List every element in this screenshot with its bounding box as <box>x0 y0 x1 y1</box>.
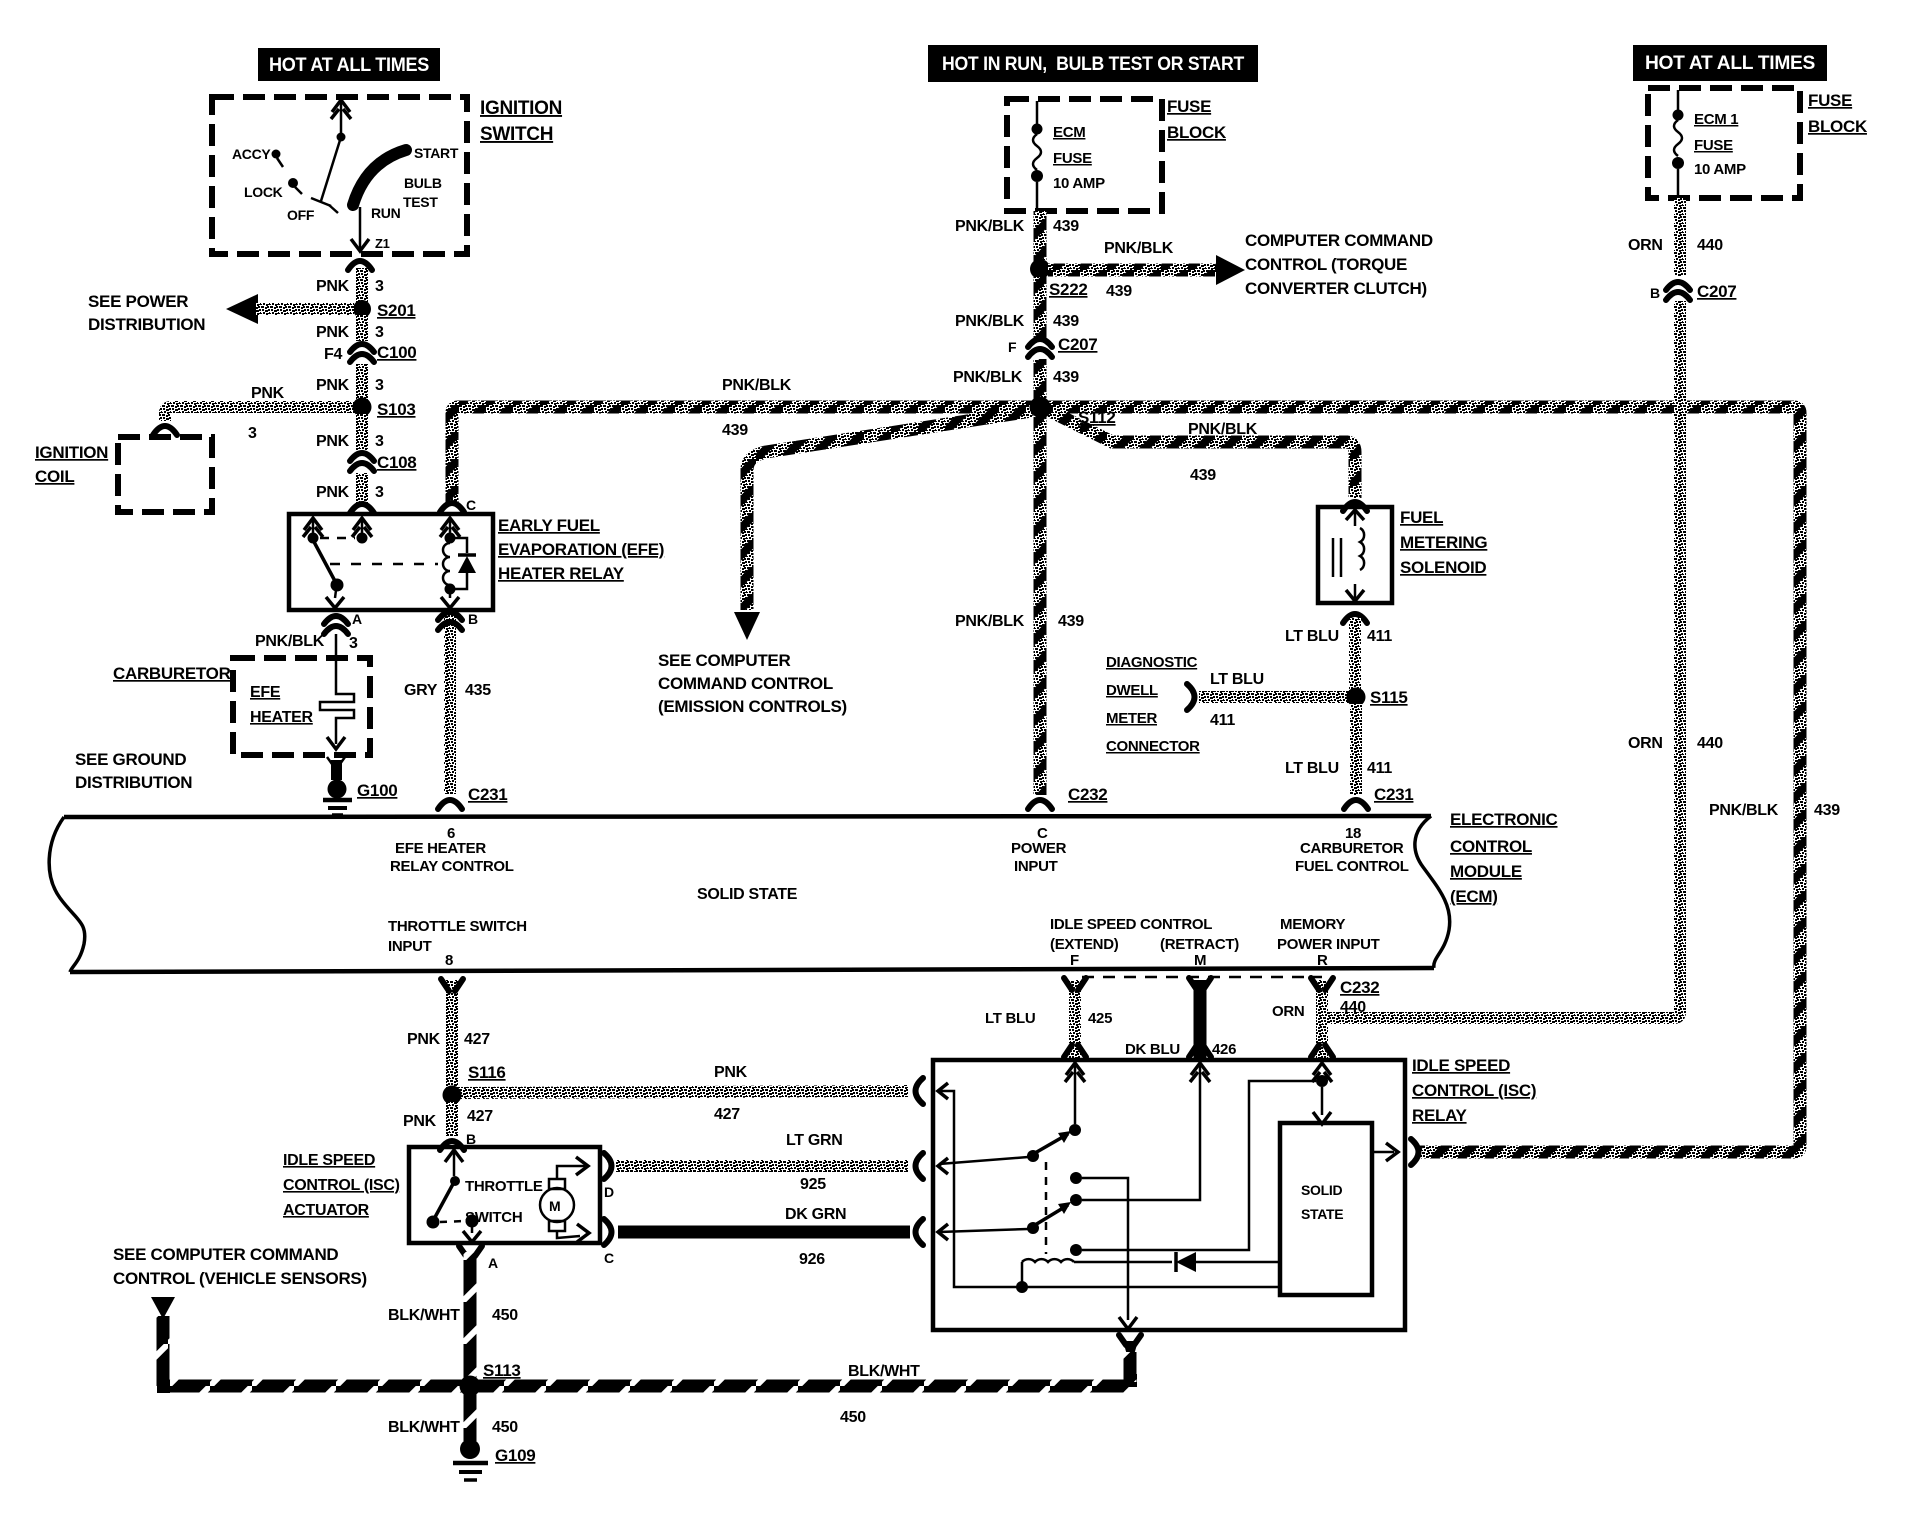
wire DK GRN 926 to ISC relay <box>618 1226 910 1239</box>
EFE relay pins top arrows <box>303 518 323 537</box>
svg-text:COMPUTER COMMAND: COMPUTER COMMAND <box>1245 231 1433 250</box>
solenoid internals <box>1346 510 1364 520</box>
ignition switch box <box>212 97 467 254</box>
EFE relay box <box>289 514 493 610</box>
svg-text:LOCK: LOCK <box>244 184 283 200</box>
svg-text:C: C <box>466 497 476 513</box>
svg-text:(EXTEND): (EXTEND) <box>1050 936 1119 953</box>
svg-text:3: 3 <box>248 425 257 442</box>
svg-text:439: 439 <box>722 422 748 439</box>
svg-text:EFE: EFE <box>250 684 281 701</box>
ISC motor M <box>540 1188 574 1222</box>
svg-text:METERING: METERING <box>1400 533 1487 552</box>
svg-text:IGNITION: IGNITION <box>35 443 108 462</box>
wire LT BLU 411 S115 to C231 <box>1350 704 1362 795</box>
svg-text:R: R <box>1317 952 1328 969</box>
svg-text:HOT AT ALL TIMES: HOT AT ALL TIMES <box>269 55 429 76</box>
node S103 <box>353 398 372 417</box>
svg-text:3: 3 <box>375 484 384 501</box>
EFE relay diode <box>452 538 467 553</box>
wire PNK/BLK 439 S222 to C207 <box>1034 277 1047 338</box>
svg-text:450: 450 <box>492 1419 518 1436</box>
ignition ACCY contact <box>272 150 281 159</box>
svg-text:SOLID STATE: SOLID STATE <box>697 886 798 903</box>
svg-text:C100: C100 <box>377 343 416 362</box>
svg-text:LT BLU: LT BLU <box>1285 760 1339 777</box>
svg-text:INPUT: INPUT <box>388 938 432 955</box>
wire PNK/BLK 439 fuse to S222 <box>1034 211 1047 262</box>
svg-text:DWELL: DWELL <box>1106 682 1158 699</box>
svg-text:439: 439 <box>1058 613 1084 630</box>
svg-text:S112: S112 <box>1078 408 1116 427</box>
svg-text:CONTROL (ISC): CONTROL (ISC) <box>1412 1081 1536 1100</box>
svg-text:D: D <box>604 1184 614 1200</box>
svg-text:439: 439 <box>1814 802 1840 819</box>
wire PNK 3 S201 to C100 <box>356 315 368 341</box>
svg-text:435: 435 <box>465 682 491 699</box>
svg-text:PNK/BLK: PNK/BLK <box>722 377 792 394</box>
wire PNK to ignition coil <box>165 407 362 421</box>
svg-text:3: 3 <box>375 278 384 295</box>
svg-text:C207: C207 <box>1058 335 1097 354</box>
node S222 <box>1030 259 1050 279</box>
svg-text:C: C <box>604 1250 614 1266</box>
svg-text:LT GRN: LT GRN <box>786 1132 843 1149</box>
throttle switch contacts <box>445 1150 463 1162</box>
svg-text:F4: F4 <box>324 346 342 363</box>
svg-text:C232: C232 <box>1068 785 1107 804</box>
header HOT IN RUN BULB TEST OR START <box>928 45 1258 82</box>
EFE relay coil <box>449 520 452 534</box>
svg-text:PNK/BLK: PNK/BLK <box>255 633 325 650</box>
connector C108 <box>350 453 374 471</box>
svg-text:BLK/WHT: BLK/WHT <box>388 1419 460 1436</box>
relay internal: solid state box <box>1280 1123 1372 1295</box>
svg-text:3: 3 <box>375 324 384 341</box>
svg-text:926: 926 <box>799 1251 825 1268</box>
wire ORN 440 R to relay <box>1316 980 1328 1058</box>
svg-text:B: B <box>1650 285 1660 301</box>
svg-text:LT BLU: LT BLU <box>1285 628 1339 645</box>
svg-text:PNK: PNK <box>407 1031 441 1048</box>
wire PNK/BLK 439 branch to emission controls arrow <box>747 411 1032 610</box>
svg-text:440: 440 <box>1697 237 1723 254</box>
svg-text:THROTTLE SWITCH: THROTTLE SWITCH <box>388 918 527 935</box>
svg-text:3: 3 <box>375 377 384 394</box>
svg-text:411: 411 <box>1367 628 1392 645</box>
ground G100 <box>327 757 345 764</box>
svg-text:IGNITION: IGNITION <box>480 98 562 119</box>
relay internal: armature 2 <box>1027 1222 1039 1234</box>
svg-text:3: 3 <box>349 635 358 652</box>
svg-text:439: 439 <box>1053 369 1079 386</box>
svg-text:THROTTLE: THROTTLE <box>465 1178 543 1195</box>
relay internal: NC1 to bottom output <box>1070 1172 1082 1184</box>
svg-text:M: M <box>549 1198 560 1214</box>
svg-text:FUEL: FUEL <box>1400 508 1443 527</box>
svg-text:BULB: BULB <box>404 175 442 191</box>
wire LT BLU 425 F to relay <box>1069 980 1081 1058</box>
svg-text:425: 425 <box>1088 1010 1112 1027</box>
fuse block (right) <box>1648 88 1800 198</box>
svg-text:F: F <box>1070 952 1079 969</box>
svg-text:COIL: COIL <box>35 467 74 486</box>
svg-text:PNK/BLK: PNK/BLK <box>1188 421 1258 438</box>
connector A below actuator <box>459 1246 482 1256</box>
svg-text:ORN: ORN <box>1628 237 1663 254</box>
wire BLK/WHT 450 A to S113 <box>464 1252 477 1380</box>
connector A below EFE relay <box>324 616 348 634</box>
svg-text:COMMAND CONTROL: COMMAND CONTROL <box>658 674 833 693</box>
svg-text:439: 439 <box>1053 218 1079 235</box>
svg-text:3: 3 <box>375 433 384 450</box>
svg-text:BLOCK: BLOCK <box>1167 123 1227 142</box>
svg-text:CONTROL (TORQUE: CONTROL (TORQUE <box>1245 255 1407 274</box>
EFE relay mech link dashed <box>330 563 438 566</box>
svg-text:SEE GROUND: SEE GROUND <box>75 750 186 769</box>
svg-text:PNK: PNK <box>316 324 350 341</box>
connector C231 (GRY) <box>438 800 462 809</box>
svg-text:EFE HEATER: EFE HEATER <box>395 840 486 857</box>
ignition RUN-START arc <box>353 150 406 205</box>
svg-text:(EMISSION CONTROLS): (EMISSION CONTROLS) <box>658 697 847 716</box>
fuel metering solenoid box <box>1318 507 1392 603</box>
svg-text:427: 427 <box>467 1108 493 1125</box>
svg-text:427: 427 <box>464 1031 490 1048</box>
svg-text:C207: C207 <box>1697 282 1736 301</box>
relay top pin arrows <box>1065 1063 1085 1082</box>
wire PNK 3 S103 to C108 <box>356 414 368 450</box>
svg-text:8: 8 <box>445 952 453 969</box>
fuse ECM FUSE 10A <box>1036 101 1039 124</box>
svg-text:POWER: POWER <box>1011 840 1067 857</box>
relay internal: dashed mech link <box>1045 1162 1048 1254</box>
svg-text:DK GRN: DK GRN <box>785 1206 846 1223</box>
wire PNK/BLK 439 main horizontal S112 run <box>452 407 1800 1152</box>
svg-text:PNK: PNK <box>316 484 350 501</box>
svg-text:MEMORY: MEMORY <box>1280 916 1345 933</box>
fuse block (middle) <box>1007 99 1162 211</box>
svg-text:HOT AT ALL TIMES: HOT AT ALL TIMES <box>1645 53 1815 74</box>
wire BLK/WHT 450 S113 to G109 <box>464 1392 477 1441</box>
svg-text:A: A <box>488 1255 498 1271</box>
svg-text:LT BLU: LT BLU <box>985 1010 1035 1027</box>
svg-text:440: 440 <box>1340 999 1366 1016</box>
svg-text:B: B <box>468 611 478 627</box>
wire PNK/BLK 439 S112 to C232 <box>1034 415 1047 795</box>
EFE heater element <box>320 660 354 727</box>
svg-text:439: 439 <box>1190 467 1216 484</box>
svg-text:S115: S115 <box>1370 688 1408 707</box>
svg-text:DK BLU: DK BLU <box>1125 1041 1180 1058</box>
relay internal: NC2 to R junction <box>1070 1244 1082 1256</box>
ignition coil box <box>118 437 212 512</box>
connector C232 (power input) <box>1028 800 1052 809</box>
svg-text:C231: C231 <box>1374 785 1413 804</box>
connector C232 dashed link below band <box>1082 976 1322 979</box>
svg-text:FUSE: FUSE <box>1808 91 1852 110</box>
wire PNK 3 ignition to S201 <box>356 268 368 303</box>
node S112 <box>1030 397 1051 418</box>
svg-text:PNK: PNK <box>403 1113 437 1130</box>
svg-text:SOLENOID: SOLENOID <box>1400 558 1486 577</box>
see power distribution arrow <box>226 294 258 324</box>
wire BLK/WHT 450 main bottom run <box>163 1380 1130 1393</box>
svg-text:ECM: ECM <box>1053 124 1085 141</box>
wire PNK/BLK 439 C207 to S112 <box>1034 359 1047 400</box>
svg-text:EVAPORATION (EFE): EVAPORATION (EFE) <box>498 540 664 559</box>
svg-text:CONVERTER CLUTCH): CONVERTER CLUTCH) <box>1245 279 1427 298</box>
svg-text:RELAY CONTROL: RELAY CONTROL <box>390 858 514 875</box>
svg-text:411: 411 <box>1210 712 1235 729</box>
svg-text:B: B <box>466 1131 476 1147</box>
ignition Z1 output <box>359 207 362 248</box>
svg-text:PNK: PNK <box>316 433 350 450</box>
svg-text:BLOCK: BLOCK <box>1808 117 1868 136</box>
wire LT BLU 411 to dwell meter connector <box>1199 691 1356 703</box>
ECM solid state band <box>64 816 1431 817</box>
svg-text:IDLE SPEED: IDLE SPEED <box>283 1152 375 1169</box>
wire corner patch left <box>157 1380 170 1393</box>
svg-text:DISTRIBUTION: DISTRIBUTION <box>88 315 205 334</box>
svg-text:IDLE SPEED: IDLE SPEED <box>1412 1056 1510 1075</box>
ISC relay box <box>933 1060 1405 1330</box>
svg-text:METER: METER <box>1106 710 1157 727</box>
svg-text:HEATER RELAY: HEATER RELAY <box>498 564 625 583</box>
svg-text:CONNECTOR: CONNECTOR <box>1106 738 1200 755</box>
svg-text:450: 450 <box>492 1307 518 1324</box>
svg-text:427: 427 <box>714 1106 740 1123</box>
svg-text:FUSE: FUSE <box>1053 150 1092 167</box>
wire PNK 3 C100 to S103 <box>356 364 368 400</box>
svg-text:C232: C232 <box>1340 978 1379 997</box>
connector C231 (carb fuel control) <box>1344 800 1368 809</box>
svg-text:PNK: PNK <box>316 278 350 295</box>
svg-text:925: 925 <box>800 1176 826 1193</box>
svg-text:HEATER: HEATER <box>250 709 314 726</box>
wire ORN 440 fuse to C207 B <box>1674 198 1686 276</box>
svg-text:ELECTRONIC: ELECTRONIC <box>1450 810 1558 829</box>
svg-text:G109: G109 <box>495 1446 535 1465</box>
ignition LOCK contact <box>288 178 298 188</box>
svg-text:C231: C231 <box>468 785 507 804</box>
relay internal: PNK input routing <box>939 1091 1278 1287</box>
wire DK BLU 426 M to relay <box>1194 980 1207 1058</box>
svg-text:(ECM): (ECM) <box>1450 887 1498 906</box>
svg-text:426: 426 <box>1212 1041 1236 1058</box>
svg-text:ACCY: ACCY <box>232 146 271 162</box>
svg-text:START: START <box>414 145 459 161</box>
wire PNK 427 pin8 to S116 <box>446 980 458 1088</box>
header HOT AT ALL TIMES (right) <box>1633 45 1827 81</box>
EFE relay armature <box>313 540 336 583</box>
svg-text:ECM 1: ECM 1 <box>1694 111 1738 128</box>
wire PNK 427 S116 to throttle switch B <box>446 1102 458 1136</box>
svg-text:PNK/BLK: PNK/BLK <box>955 313 1025 330</box>
svg-text:PNK/BLK: PNK/BLK <box>1709 802 1779 819</box>
svg-text:EARLY FUEL: EARLY FUEL <box>498 516 600 535</box>
svg-text:SWITCH: SWITCH <box>480 124 553 145</box>
wire PNK/BLK to torque converter arrow <box>1048 264 1216 277</box>
svg-text:450: 450 <box>840 1409 866 1426</box>
svg-text:TEST: TEST <box>403 194 438 210</box>
svg-text:ORN: ORN <box>1628 735 1663 752</box>
svg-text:SEE COMPUTER: SEE COMPUTER <box>658 651 790 670</box>
svg-text:FUSE: FUSE <box>1167 97 1211 116</box>
svg-text:SOLID: SOLID <box>1301 1182 1342 1198</box>
svg-text:HOT IN RUN, BULB TEST OR STAR: HOT IN RUN, BULB TEST OR START <box>942 54 1245 75</box>
ground G109 <box>460 1439 480 1459</box>
svg-text:10 AMP: 10 AMP <box>1053 175 1105 192</box>
relay internal: F contact <box>1074 1066 1077 1124</box>
svg-text:BLK/WHT: BLK/WHT <box>388 1307 460 1324</box>
svg-text:SEE POWER: SEE POWER <box>88 292 188 311</box>
svg-text:OFF: OFF <box>287 207 315 223</box>
wire PNK to power distribution <box>256 303 354 315</box>
wire BLK/WHT to vehicle sensors arrow <box>157 1316 170 1386</box>
svg-text:DIAGNOSTIC: DIAGNOSTIC <box>1106 654 1198 671</box>
header HOT AT ALL TIMES (left) <box>258 48 440 81</box>
ignition switch contact arm <box>331 100 351 119</box>
svg-text:PNK/BLK: PNK/BLK <box>1104 240 1174 257</box>
wire LT BLU 411 solenoid to S115 <box>1343 614 1367 623</box>
svg-text:RUN: RUN <box>371 205 401 221</box>
svg-text:SEE COMPUTER COMMAND: SEE COMPUTER COMMAND <box>113 1245 338 1264</box>
svg-text:LT BLU: LT BLU <box>1210 671 1264 688</box>
relay internal: output to PNK/BLK <box>1372 1151 1394 1154</box>
svg-text:BLK/WHT: BLK/WHT <box>848 1363 920 1380</box>
relay internal: M contact <box>1082 1066 1200 1200</box>
svg-text:440: 440 <box>1697 735 1723 752</box>
svg-text:S113: S113 <box>483 1361 521 1380</box>
svg-text:IDLE SPEED CONTROL: IDLE SPEED CONTROL <box>1050 916 1212 933</box>
connector D <box>604 1153 612 1179</box>
svg-text:PNK/BLK: PNK/BLK <box>955 613 1025 630</box>
svg-text:(RETRACT): (RETRACT) <box>1160 936 1239 953</box>
wire PNK/BLK 439 branch to fuel metering solenoid <box>1048 410 1355 498</box>
svg-text:FUEL CONTROL: FUEL CONTROL <box>1295 858 1409 875</box>
svg-text:G100: G100 <box>357 781 397 800</box>
svg-text:PNK: PNK <box>316 377 350 394</box>
wire LT GRN 925 to ISC relay <box>616 1160 908 1172</box>
svg-text:ORN: ORN <box>1272 1003 1304 1020</box>
svg-text:A: A <box>352 611 362 627</box>
svg-text:S222: S222 <box>1049 280 1088 299</box>
connector C <box>604 1219 612 1245</box>
svg-text:MODULE: MODULE <box>1450 862 1522 881</box>
svg-text:INPUT: INPUT <box>1014 858 1058 875</box>
svg-text:ACTUATOR: ACTUATOR <box>283 1202 370 1219</box>
relay left pin arrows <box>938 1083 948 1099</box>
svg-text:Z1: Z1 <box>375 236 390 251</box>
node S201 <box>353 300 371 318</box>
svg-text:STATE: STATE <box>1301 1206 1343 1222</box>
svg-text:CONTROL (VEHICLE SENSORS): CONTROL (VEHICLE SENSORS) <box>113 1269 367 1288</box>
relay internal: coil and diode <box>1022 1259 1074 1262</box>
EFE relay switch contacts <box>312 520 315 534</box>
svg-text:S201: S201 <box>377 301 416 320</box>
svg-text:RELAY: RELAY <box>1412 1106 1468 1125</box>
svg-text:10 AMP: 10 AMP <box>1694 161 1746 178</box>
svg-text:S103: S103 <box>377 400 416 419</box>
connector C207 B <box>1666 282 1690 300</box>
svg-text:CARBURETOR: CARBURETOR <box>1300 840 1404 857</box>
svg-text:DISTRIBUTION: DISTRIBUTION <box>75 773 192 792</box>
svg-text:PNK/BLK: PNK/BLK <box>955 218 1025 235</box>
svg-text:M: M <box>1194 952 1206 969</box>
svg-text:GRY: GRY <box>404 682 438 699</box>
svg-text:CONTROL (ISC): CONTROL (ISC) <box>283 1177 400 1194</box>
connector C207 F <box>1028 339 1052 357</box>
svg-text:S116: S116 <box>468 1063 506 1082</box>
svg-text:PNK: PNK <box>714 1064 748 1081</box>
svg-text:C108: C108 <box>377 453 416 472</box>
svg-text:PNK/BLK: PNK/BLK <box>953 369 1023 386</box>
connector C at EFE relay <box>440 503 464 512</box>
wire corner patch relay output <box>1124 1374 1137 1387</box>
fuse ECM 1 FUSE 10A <box>1677 90 1680 110</box>
svg-text:439: 439 <box>1053 313 1079 330</box>
wire ORN 440 C207 down right side <box>1326 301 1680 1018</box>
svg-text:PNK: PNK <box>251 385 285 402</box>
svg-text:POWER INPUT: POWER INPUT <box>1277 936 1380 953</box>
wire PNK 427 S116 to ISC relay <box>452 1091 908 1093</box>
svg-text:FUSE: FUSE <box>1694 137 1733 154</box>
connector C100 <box>350 344 374 362</box>
relay bottom output connector <box>1119 1335 1141 1345</box>
svg-text:411: 411 <box>1367 760 1392 777</box>
relay internal: armature 1 <box>1027 1150 1039 1162</box>
svg-text:F: F <box>1008 339 1017 355</box>
svg-text:CARBURETOR: CARBURETOR <box>113 664 231 683</box>
wire PNK 3 C108 to EFE relay <box>356 473 368 506</box>
svg-text:439: 439 <box>1106 283 1132 300</box>
svg-text:CONTROL: CONTROL <box>1450 837 1532 856</box>
